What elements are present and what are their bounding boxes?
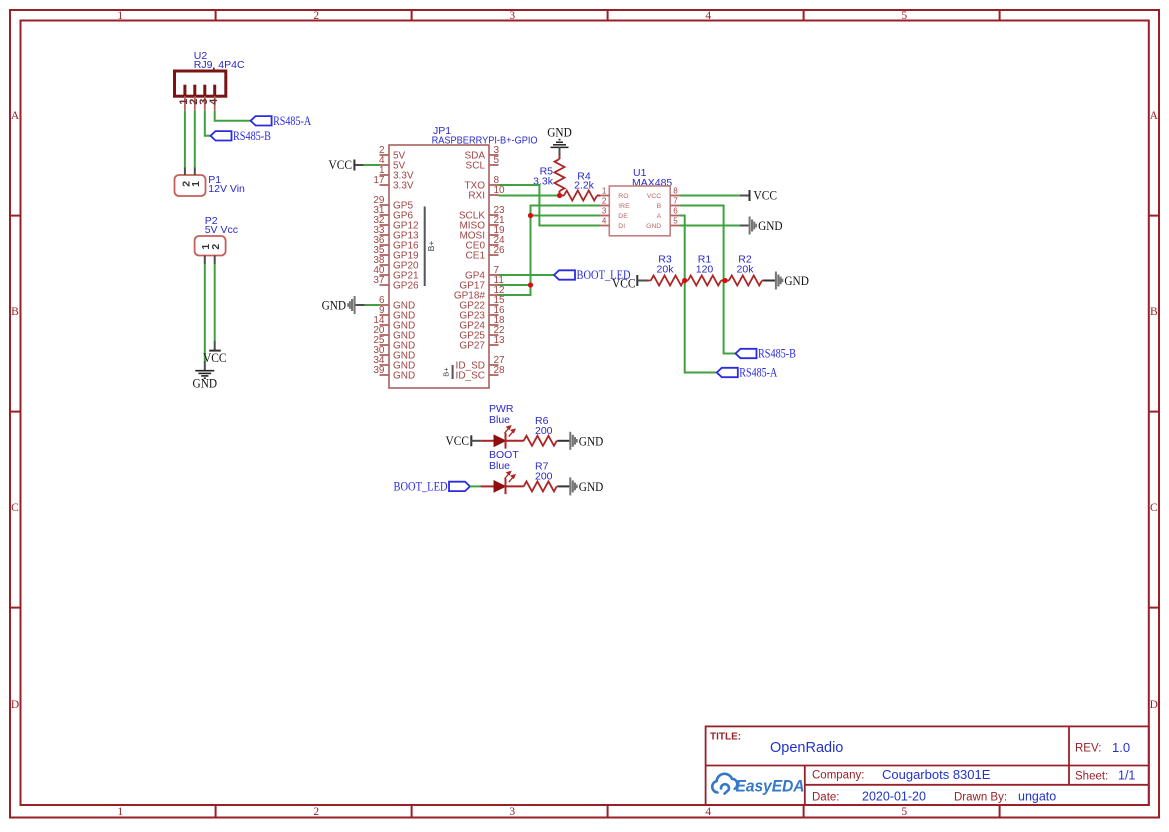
svg-text:20k: 20k <box>737 263 755 275</box>
svg-text:200: 200 <box>535 471 553 483</box>
svg-text:GP27: GP27 <box>459 341 485 352</box>
svg-text:5: 5 <box>901 806 907 818</box>
svg-text:4: 4 <box>705 10 711 22</box>
svg-text:CE1: CE1 <box>466 251 486 262</box>
svg-text:RO: RO <box>618 193 628 200</box>
svg-text:10: 10 <box>494 185 506 196</box>
svg-text:3: 3 <box>509 806 515 818</box>
svg-text:5: 5 <box>494 155 500 166</box>
svg-text:C: C <box>11 502 19 514</box>
svg-text:B: B <box>657 203 662 210</box>
svg-text:28: 28 <box>494 365 506 376</box>
svg-text:8: 8 <box>673 187 678 196</box>
svg-text:GND: GND <box>193 377 218 391</box>
svg-text:120: 120 <box>696 263 714 275</box>
svg-text:ID_SC: ID_SC <box>456 371 485 382</box>
svg-text:RS485-B: RS485-B <box>233 129 271 143</box>
svg-text:GP26: GP26 <box>393 281 419 292</box>
svg-text:4: 4 <box>208 98 220 105</box>
svg-text:GND: GND <box>322 299 347 313</box>
svg-text:DI: DI <box>618 223 625 230</box>
svg-text:REV:: REV: <box>1075 743 1101 755</box>
svg-text:4: 4 <box>705 806 711 818</box>
svg-text:13: 13 <box>494 335 506 346</box>
svg-text:6: 6 <box>673 207 678 216</box>
svg-text:26: 26 <box>494 245 506 256</box>
svg-text:Cougarbots 8301E: Cougarbots 8301E <box>882 767 991 782</box>
svg-text:3: 3 <box>509 10 515 22</box>
svg-text:2: 2 <box>313 10 319 22</box>
svg-text:2.2k: 2.2k <box>574 180 595 192</box>
svg-text:20k: 20k <box>657 263 675 275</box>
svg-text:VCC: VCC <box>329 158 353 172</box>
svg-text:GND: GND <box>579 480 604 494</box>
svg-text:Drawn By:: Drawn By: <box>954 792 1007 804</box>
svg-text:RS485-B: RS485-B <box>758 347 796 361</box>
svg-text:EasyEDA: EasyEDA <box>736 777 805 796</box>
svg-text:VCC: VCC <box>647 193 661 200</box>
svg-text:12V Vin: 12V Vin <box>208 183 245 195</box>
svg-text:5: 5 <box>901 10 907 22</box>
svg-text:4: 4 <box>602 217 607 226</box>
svg-text:GND: GND <box>579 434 604 448</box>
svg-text:ungato: ungato <box>1018 790 1056 804</box>
svg-text:VCC: VCC <box>446 434 470 448</box>
svg-text:B: B <box>1150 306 1158 318</box>
svg-text:GND: GND <box>758 219 783 233</box>
svg-text:TITLE:: TITLE: <box>710 732 741 743</box>
svg-text:A: A <box>657 213 662 220</box>
svg-text:2020-01-20: 2020-01-20 <box>862 790 926 804</box>
svg-text:5V Vcc: 5V Vcc <box>205 224 238 236</box>
svg-text:A: A <box>1150 110 1159 122</box>
svg-text:Blue: Blue <box>489 460 510 472</box>
svg-text:3.3V: 3.3V <box>393 181 414 192</box>
svg-text:Date:: Date: <box>812 792 840 804</box>
svg-text:RS485-A: RS485-A <box>739 366 777 380</box>
svg-text:GND: GND <box>646 223 661 230</box>
svg-text:Company:: Company: <box>812 770 864 782</box>
svg-text:1.0: 1.0 <box>1112 740 1130 755</box>
svg-text:OpenRadio: OpenRadio <box>770 740 843 756</box>
svg-text:RS485-A: RS485-A <box>273 114 311 128</box>
svg-text:17: 17 <box>373 175 385 186</box>
svg-text:VCC: VCC <box>612 277 636 291</box>
svg-text:5: 5 <box>673 217 678 226</box>
svg-text:DE: DE <box>618 213 628 220</box>
svg-text:200: 200 <box>535 425 553 437</box>
svg-text:1/1: 1/1 <box>1118 769 1135 783</box>
svg-text:B+: B+ <box>442 367 451 377</box>
svg-text:1: 1 <box>602 187 607 196</box>
svg-text:B+: B+ <box>426 241 436 252</box>
svg-text:GND: GND <box>784 274 809 288</box>
svg-text:VCC: VCC <box>754 189 778 203</box>
svg-text:1: 1 <box>117 806 123 818</box>
svg-text:2: 2 <box>313 806 319 818</box>
svg-text:BOOT_LED: BOOT_LED <box>394 480 448 494</box>
svg-text:2: 2 <box>210 244 222 250</box>
svg-text:7: 7 <box>673 197 678 206</box>
svg-text:2: 2 <box>602 197 607 206</box>
svg-text:3: 3 <box>602 207 607 216</box>
svg-text:RXI: RXI <box>468 191 485 202</box>
svg-text:GND: GND <box>393 371 415 382</box>
svg-text:Blue: Blue <box>489 414 510 426</box>
svg-text:MAX485: MAX485 <box>632 177 672 189</box>
svg-text:SCL: SCL <box>466 161 486 172</box>
svg-text:D: D <box>11 699 19 711</box>
svg-text:C: C <box>1150 502 1158 514</box>
svg-text:Sheet:: Sheet: <box>1075 771 1108 783</box>
svg-text:37: 37 <box>373 275 385 286</box>
svg-text:1: 1 <box>117 10 123 22</box>
svg-text:!RE: !RE <box>618 203 630 210</box>
svg-text:GND: GND <box>547 126 572 140</box>
svg-text:RJ9_4P4C: RJ9_4P4C <box>194 59 245 71</box>
svg-text:VCC: VCC <box>203 351 227 365</box>
svg-text:39: 39 <box>373 365 385 376</box>
svg-text:B: B <box>11 306 19 318</box>
svg-text:A: A <box>11 110 20 122</box>
svg-text:D: D <box>1150 699 1158 711</box>
svg-text:1: 1 <box>190 181 202 187</box>
